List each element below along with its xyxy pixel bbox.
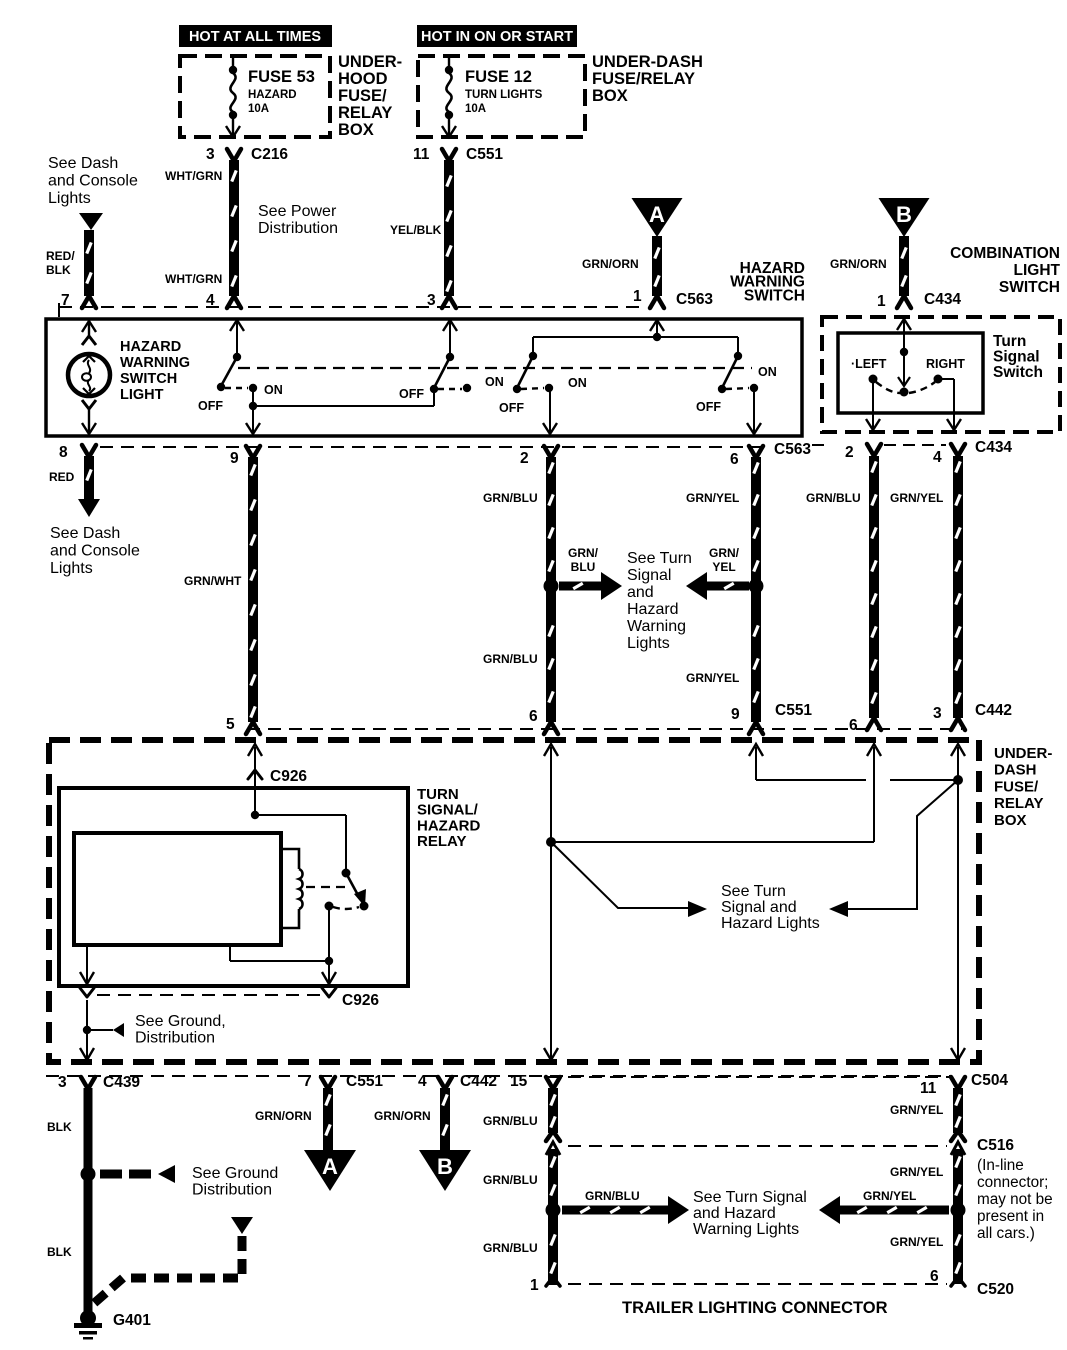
svg-text:See Ground: See Ground	[192, 1165, 278, 1182]
wire WHT/GRN (C216-3 to hazard switch pin 4)	[229, 160, 239, 296]
svg-text:C442: C442	[975, 702, 1012, 719]
svg-text:SWITCH: SWITCH	[120, 371, 177, 387]
svg-text:present in: present in	[977, 1208, 1044, 1225]
svg-text:3: 3	[427, 292, 436, 309]
label TURN SIGNAL/HAZARD RELAY	[417, 786, 480, 850]
svg-text:GRN/ORN: GRN/ORN	[374, 1109, 431, 1123]
C563 pin3 flare	[442, 296, 456, 308]
svg-text:C563: C563	[676, 291, 713, 308]
C563 pin8 flare	[82, 445, 96, 457]
wire sw1 ON contact to pin 9 and to sw2	[246, 388, 434, 434]
svg-text:C439: C439	[103, 1074, 140, 1091]
svg-text:GRN/ORN: GRN/ORN	[830, 257, 887, 271]
label RED/BLK	[46, 249, 75, 277]
svg-text:15: 15	[510, 1073, 528, 1090]
connector C216 pin 3	[206, 146, 288, 163]
relay switch contacts	[325, 869, 369, 911]
connector C926 (top) symbol	[248, 770, 262, 779]
svg-text:HOT AT ALL TIMES: HOT AT ALL TIMES	[189, 29, 321, 45]
svg-text:GRN/YEL: GRN/YEL	[890, 1103, 943, 1117]
svg-text:BLK: BLK	[47, 1120, 72, 1134]
connector row C434 (bottom of comb switch)	[812, 439, 1012, 466]
svg-text:See Turn: See Turn	[721, 883, 786, 900]
svg-text:UNDER-DASH: UNDER-DASH	[592, 53, 703, 71]
svg-text:Hazard Lights: Hazard Lights	[721, 915, 820, 932]
note See Ground Distribution (in box)	[135, 1013, 226, 1046]
wire C442-6 vertical	[551, 747, 874, 842]
note See Ground Distribution (bottom)	[192, 1165, 278, 1198]
note See Turn Signal and Hazard Warning Lights (trailer)	[693, 1189, 807, 1238]
svg-text:BOX: BOX	[994, 812, 1027, 829]
relay actuating link (dashed)	[306, 886, 351, 888]
svg-text:BOX: BOX	[338, 121, 374, 139]
fuse 53 (HAZARD 10A)	[226, 56, 240, 137]
relay internal feed	[251, 788, 346, 873]
svg-text:UNDER-: UNDER-	[338, 53, 402, 71]
svg-text:Lights: Lights	[48, 190, 91, 207]
internal line from pin 1 to poles 3 and 4	[533, 319, 738, 356]
svg-text:See Turn: See Turn	[627, 550, 692, 567]
svg-text:ON: ON	[568, 376, 587, 390]
svg-text:and Hazard: and Hazard	[693, 1205, 776, 1222]
svg-text:6: 6	[849, 717, 858, 734]
pin labels row C563 top	[61, 288, 713, 309]
connector C926 right flare	[322, 988, 336, 997]
arrow into under-dash box (pin 5 line)	[248, 744, 262, 756]
C563 pin4 flare	[227, 296, 241, 308]
arrow out of relay (right)	[322, 972, 336, 984]
under-hood fuse/relay box (dashed)	[180, 56, 330, 137]
svg-text:Hazard: Hazard	[627, 601, 679, 618]
svg-text:RELAY: RELAY	[994, 795, 1043, 812]
connector line C926 (bottom)	[97, 994, 320, 996]
svg-text:OFF: OFF	[696, 400, 721, 414]
svg-text:C434: C434	[975, 439, 1012, 456]
junction on GRN/YEL trailer wire	[951, 1203, 966, 1218]
svg-text:UNDER-: UNDER-	[994, 745, 1052, 762]
svg-text:HOOD: HOOD	[338, 70, 388, 88]
svg-text:8: 8	[59, 444, 68, 461]
wire RED (pin 8 to dash/console lights)	[84, 456, 94, 500]
connector line C504	[547, 1076, 952, 1078]
svg-text:HAZARD: HAZARD	[120, 339, 181, 355]
svg-text:GRN/ORN: GRN/ORN	[255, 1109, 312, 1123]
svg-text:Warning: Warning	[627, 618, 686, 635]
turn signal switch box	[838, 333, 983, 413]
svg-text:A: A	[649, 202, 665, 227]
turn signal switch outputs	[866, 379, 961, 430]
svg-text:FUSE/: FUSE/	[338, 87, 387, 105]
svg-text:HAZARD: HAZARD	[417, 817, 480, 834]
svg-text:4: 4	[206, 292, 215, 309]
svg-text:SWITCH: SWITCH	[999, 279, 1060, 296]
connector line C563 (top row)	[59, 306, 646, 308]
off-page arrow B (from)	[879, 198, 930, 237]
connector line left stub	[58, 303, 60, 317]
off-page arrow A (to)	[304, 1150, 356, 1191]
arrow to dash and console lights	[78, 499, 100, 517]
svg-text:SIGNAL/: SIGNAL/	[417, 802, 479, 819]
svg-text:See Dash: See Dash	[50, 525, 120, 542]
svg-text:B: B	[437, 1154, 453, 1179]
label UNDER-DASH FUSE/RELAY BOX	[592, 53, 703, 105]
note See Turn Signal and Hazard Warning Lights	[627, 550, 692, 652]
svg-text:A: A	[322, 1154, 338, 1179]
hazard switch pole 3 (to pin 2)	[513, 352, 557, 434]
C434 pin1 flare	[897, 296, 911, 308]
C516 left lower arrow	[546, 1142, 560, 1155]
wire C442-3 vertical to C504-11	[957, 747, 959, 1060]
svg-text:ON: ON	[264, 383, 283, 397]
svg-text:OFF: OFF	[198, 399, 223, 413]
svg-text:Lights: Lights	[50, 560, 93, 577]
wire C551-9 to junction line	[756, 747, 958, 780]
wire GRN/ORN (C442-4 to B)	[440, 1088, 450, 1151]
svg-text:GRN/: GRN/	[568, 546, 599, 560]
ground G401	[74, 1310, 102, 1340]
title HAZARD WARNING SWITCH	[730, 260, 805, 304]
svg-text:2: 2	[845, 444, 854, 461]
label FUSE 12	[465, 68, 543, 115]
hazard switch pole 2 (pin 3)	[430, 319, 471, 393]
svg-text:GRN/YEL: GRN/YEL	[863, 1189, 916, 1203]
svg-text:WHT/GRN: WHT/GRN	[165, 272, 222, 286]
wire C551-6 vertical to C504-15	[550, 747, 552, 1060]
arrow up to C442-3	[951, 744, 965, 756]
connector C551-11 flare	[442, 149, 456, 161]
wire YEL/BLK (C551-11 to hazard switch pin 3)	[444, 160, 454, 296]
svg-text:BOX: BOX	[592, 87, 628, 105]
svg-text:all cars.): all cars.)	[977, 1225, 1035, 1242]
svg-text:WHT/GRN: WHT/GRN	[165, 169, 222, 183]
C563 pin1 flare	[650, 296, 664, 308]
svg-text:OFF: OFF	[399, 387, 424, 401]
connector C551 pin 11	[413, 146, 503, 163]
svg-text:WARNING: WARNING	[120, 355, 190, 371]
label UNDER-DASH FUSE/RELAY BOX (right)	[994, 745, 1052, 829]
svg-text:YEL/BLK: YEL/BLK	[390, 223, 442, 237]
arrow to turn signal and hazard warning lights (right-pointing)	[559, 572, 622, 600]
incoming arrow from dash/console lights	[79, 213, 103, 230]
svg-text:LIGHT: LIGHT	[120, 387, 164, 403]
connector line C551/C442	[247, 728, 962, 730]
svg-text:GRN/BLU: GRN/BLU	[585, 1189, 640, 1203]
svg-text:9: 9	[731, 706, 740, 723]
svg-text:6: 6	[930, 1268, 939, 1285]
svg-text:G401: G401	[113, 1312, 151, 1329]
svg-text:GRN/BLU: GRN/BLU	[483, 1241, 538, 1255]
svg-text:7: 7	[61, 292, 70, 309]
C563 pin7 flare	[82, 296, 96, 308]
svg-text:Warning Lights: Warning Lights	[693, 1221, 799, 1238]
svg-text:C551: C551	[346, 1073, 383, 1090]
title COMBINATION LIGHT SWITCH	[950, 245, 1060, 296]
svg-text:Turn: Turn	[993, 333, 1026, 350]
svg-text:ON: ON	[485, 375, 504, 389]
svg-text:GRN/YEL: GRN/YEL	[890, 1165, 943, 1179]
hazard switch pole 1 (pin 4)	[217, 319, 257, 392]
svg-text:Distribution: Distribution	[258, 220, 338, 237]
junction on C442-3 line	[953, 775, 963, 785]
svg-text:DASH: DASH	[994, 762, 1037, 779]
svg-text:connector;: connector;	[977, 1174, 1048, 1191]
junction on C551-6 line	[546, 837, 556, 847]
labels GRN/BLU trailer column	[483, 1114, 538, 1255]
label FUSE 53	[248, 68, 315, 115]
relay coil ground leg	[86, 945, 88, 984]
junction on GRN/BLU trailer wire	[546, 1203, 561, 1218]
svg-text:OFF: OFF	[499, 401, 524, 415]
svg-text:1: 1	[530, 1277, 539, 1294]
C551 pin6 flare	[544, 722, 558, 734]
wire GRN/BLU (C516 to C520-1)	[548, 1149, 558, 1284]
arrow down to C504-15	[544, 1048, 558, 1060]
wire GRN/BLU (pin 2 to C551-6)	[546, 457, 556, 722]
C551 pin5 flare	[246, 722, 260, 734]
svg-text:and Console: and Console	[50, 542, 140, 559]
svg-text:5: 5	[226, 716, 235, 733]
wire RED/BLK (to hazard switch pin 7)	[84, 230, 94, 296]
pointer to See Turn Signal and Hazard Lights (right)	[829, 780, 958, 917]
C516 right lower arrow	[951, 1142, 965, 1155]
svg-text:BLK: BLK	[47, 1245, 72, 1259]
svg-text:C504: C504	[971, 1072, 1008, 1089]
svg-text:6: 6	[529, 708, 538, 725]
svg-text:4: 4	[418, 1073, 427, 1090]
svg-text:C434: C434	[924, 291, 961, 308]
junction on GRN/BLU wire	[544, 579, 559, 594]
note See Turn Signal and Hazard Lights	[721, 883, 820, 932]
hazard switch pole 4 (to pin 6)	[718, 352, 761, 434]
svg-text:6: 6	[730, 451, 739, 468]
wire GRN/WHT (pin 9 to C926/relay)	[248, 457, 258, 722]
svg-text:10A: 10A	[465, 103, 486, 115]
wire BLK (C439-3 to G401)	[84, 1088, 93, 1312]
svg-text:3: 3	[933, 705, 942, 722]
svg-text:GRN/BLU: GRN/BLU	[483, 491, 538, 505]
svg-text:Distribution: Distribution	[135, 1029, 215, 1046]
ground distribution branch (dashed)	[100, 1165, 175, 1183]
C520 pin1 flare	[546, 1277, 560, 1286]
connector line C516	[568, 1145, 947, 1147]
svg-text:See Turn Signal: See Turn Signal	[693, 1189, 807, 1206]
svg-text:10A: 10A	[248, 103, 269, 115]
connector line C520	[547, 1283, 947, 1285]
under-dash fuse/relay box (dashed)	[49, 740, 979, 1062]
svg-text:FUSE 12: FUSE 12	[465, 68, 532, 86]
svg-text:and Console: and Console	[48, 173, 138, 190]
svg-text:See Dash: See Dash	[48, 155, 118, 172]
hazard warning switch light lamp	[68, 319, 110, 434]
svg-text:1: 1	[877, 293, 886, 310]
C504 pin15 flare	[546, 1077, 560, 1089]
C563 pin2 flare	[544, 446, 558, 458]
svg-text:7: 7	[303, 1073, 312, 1090]
wire GRN/YEL (C504-11 to C516)	[953, 1088, 963, 1133]
under-dash fuse/relay box top (dashed)	[418, 56, 585, 137]
C439 pin3 flare	[81, 1077, 95, 1089]
svg-text:(In-line: (In-line	[977, 1157, 1024, 1174]
svg-text:C926: C926	[342, 992, 379, 1009]
svg-text:Signal: Signal	[993, 349, 1040, 366]
svg-text:GRN/YEL: GRN/YEL	[890, 1235, 943, 1249]
connector C926 left flare	[80, 988, 94, 997]
svg-text:COMBINATION: COMBINATION	[950, 245, 1060, 262]
note See Power Distribution	[258, 203, 338, 237]
svg-text:C216: C216	[251, 146, 288, 163]
turn signal/hazard relay box	[59, 788, 408, 986]
connector C434 pin 1 labels	[877, 291, 961, 310]
svg-text:C516: C516	[977, 1137, 1014, 1154]
arrow up to C551-9	[749, 744, 763, 756]
arrow up to C442-6	[867, 744, 881, 756]
power label HOT AT ALL TIMES	[179, 25, 332, 47]
C520 pin6 flare	[951, 1277, 965, 1286]
svg-text:Lights: Lights	[627, 635, 670, 652]
svg-text:GRN/BLU: GRN/BLU	[483, 1173, 538, 1187]
hazard warning switch box	[46, 319, 802, 436]
svg-text:TURN LIGHTS: TURN LIGHTS	[465, 89, 543, 101]
arrow out of relay (left)	[80, 972, 94, 984]
svg-text:See Ground,: See Ground,	[135, 1013, 226, 1030]
svg-text:LIGHT: LIGHT	[1014, 262, 1061, 279]
branch to other grounds (dashed thick)	[92, 1217, 253, 1305]
label GRN/ YEL (stacked)	[709, 546, 740, 574]
labels GRN/YEL trailer column	[890, 1103, 943, 1249]
pin labels row C551/C442	[226, 702, 1012, 734]
hazard switch internal dashed line	[238, 367, 752, 369]
pointer to See Turn Signal and Hazard Lights (left)	[551, 842, 707, 917]
note In-line connector	[977, 1157, 1053, 1242]
pin labels C520 row	[530, 1268, 1014, 1298]
svg-text:Switch: Switch	[993, 364, 1043, 381]
svg-text:C926: C926	[270, 768, 307, 785]
arrow to turn signal lights (right-pointing, trailer)	[562, 1196, 689, 1224]
power label HOT IN ON OR START	[417, 25, 577, 47]
off-page arrow B (to)	[419, 1150, 471, 1191]
combination light switch box (dashed)	[822, 317, 1060, 432]
svg-text:ON: ON	[758, 365, 777, 379]
connector line C439/C551/C442/C504	[46, 1075, 952, 1077]
note See Dash and Console Lights (top)	[48, 155, 138, 207]
svg-text:FUSE/RELAY: FUSE/RELAY	[592, 70, 695, 88]
svg-text:Distribution: Distribution	[192, 1181, 272, 1198]
wire GRN/YEL (C516 to C520-6)	[953, 1149, 963, 1284]
junction on BLK wire	[81, 1167, 96, 1182]
svg-text:C442: C442	[460, 1073, 497, 1090]
wire GRN/YEL (pin 6 to C551-9)	[751, 457, 761, 722]
svg-text:4: 4	[933, 449, 942, 466]
wire GRN/ORN (A to C563-1)	[652, 236, 662, 296]
wire GRN/ORN (B to C434-1)	[899, 236, 909, 296]
svg-text:RIGHT: RIGHT	[926, 357, 965, 371]
junction on GRN/YEL wire	[749, 579, 764, 594]
svg-text:RELAY: RELAY	[417, 833, 466, 850]
svg-text:C563: C563	[774, 441, 811, 458]
connector C216 flare	[227, 149, 241, 161]
svg-text:C551: C551	[775, 702, 812, 719]
arrow down to C504-11	[951, 1048, 965, 1060]
svg-text:C520: C520	[977, 1281, 1014, 1298]
svg-text:and: and	[627, 584, 654, 601]
svg-text:YEL: YEL	[712, 560, 735, 574]
pin labels row C563 bottom	[59, 441, 811, 468]
C434 pin2 flare	[867, 444, 881, 456]
svg-text:HAZARD: HAZARD	[248, 89, 297, 101]
off-page arrow A (from)	[632, 198, 683, 237]
label GRN/ BLU (stacked)	[568, 546, 599, 574]
wire GRN/BLU (C434-2 to C442-6)	[869, 456, 879, 718]
svg-text:GRN/YEL: GRN/YEL	[686, 671, 739, 685]
svg-text:11: 11	[920, 1080, 937, 1097]
svg-text:2: 2	[520, 450, 529, 467]
relay coil	[281, 849, 303, 928]
arrow down to C439-3	[80, 1048, 94, 1060]
C563 pin9 flare	[246, 446, 260, 458]
svg-text:BLK: BLK	[46, 263, 71, 277]
svg-text:HOT IN ON OR START: HOT IN ON OR START	[421, 29, 573, 45]
svg-text:Signal: Signal	[627, 567, 671, 584]
svg-text:B: B	[896, 202, 912, 227]
wire GRN/BLU (C504-15 to C516)	[548, 1088, 558, 1133]
svg-text:FUSE 53: FUSE 53	[248, 68, 315, 86]
note See Dash and Console Lights (mid)	[50, 525, 140, 577]
relay output (movable contact) to C926	[230, 906, 333, 984]
svg-text:GRN/YEL: GRN/YEL	[890, 491, 943, 505]
fuse 12 (TURN LIGHTS 10A)	[442, 56, 456, 137]
C516 right upper flare	[951, 1131, 965, 1141]
svg-text:RED/: RED/	[46, 249, 75, 263]
C504 pin11 flare	[951, 1077, 965, 1089]
svg-text:FUSE/: FUSE/	[994, 778, 1039, 795]
svg-text:3: 3	[206, 146, 215, 163]
svg-text:Signal and: Signal and	[721, 899, 797, 916]
C551 pin9 flare	[749, 722, 763, 734]
label Turn Signal Switch	[993, 333, 1043, 381]
pin labels bottom row	[58, 1072, 1008, 1097]
svg-text:GRN/BLU: GRN/BLU	[483, 652, 538, 666]
wire GRN/ORN (C551-7 to A)	[323, 1088, 333, 1151]
label UNDER-HOOD FUSE/RELAY BOX	[338, 53, 402, 139]
svg-text:1: 1	[633, 288, 642, 305]
svg-text:GRN/YEL: GRN/YEL	[686, 491, 739, 505]
svg-text:·LEFT: ·LEFT	[851, 357, 887, 371]
C563 pin6 flare	[749, 446, 763, 458]
C434 pin4 flare	[951, 444, 965, 456]
ground branch inside under-dash box	[83, 1000, 124, 1060]
wire GRN/YEL (C434-4 to C442-3)	[953, 456, 963, 718]
svg-text:SWITCH: SWITCH	[744, 287, 805, 304]
svg-text:BLU: BLU	[571, 560, 596, 574]
C442 pin3 flare	[951, 718, 965, 730]
svg-text:11: 11	[413, 146, 430, 163]
label HAZARD WARNING SWITCH LIGHT	[120, 339, 190, 403]
svg-text:RELAY: RELAY	[338, 104, 392, 122]
svg-text:GRN/: GRN/	[709, 546, 740, 560]
arrow to turn signal lights (left-pointing, trailer)	[819, 1196, 949, 1224]
svg-text:GRN/BLU: GRN/BLU	[483, 1114, 538, 1128]
svg-text:GRN/WHT: GRN/WHT	[184, 574, 242, 588]
wire pin5 to relay	[254, 747, 256, 788]
arrow to turn signal and hazard warning lights (left-pointing)	[686, 572, 749, 600]
svg-text:may not be: may not be	[977, 1191, 1053, 1208]
svg-text:9: 9	[230, 450, 239, 467]
relay coil box	[74, 833, 281, 945]
svg-text:3: 3	[58, 1074, 67, 1091]
svg-text:C551: C551	[466, 146, 503, 163]
C442 pin4 flare	[438, 1077, 452, 1089]
turn signal switch contacts	[869, 317, 943, 397]
